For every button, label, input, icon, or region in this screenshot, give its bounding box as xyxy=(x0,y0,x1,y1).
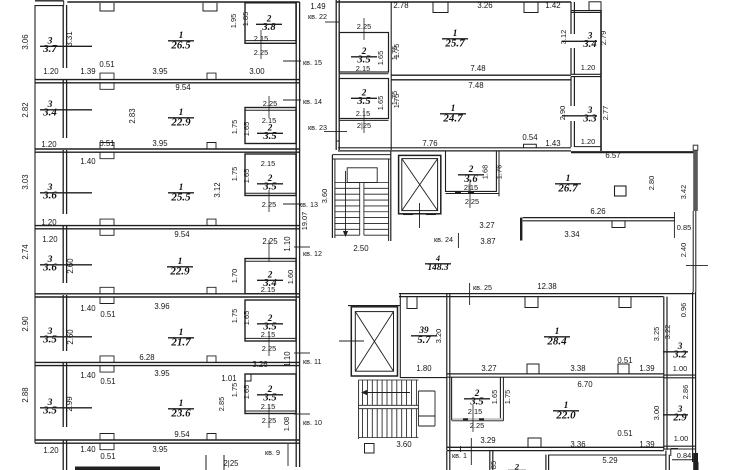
stairs lower treads xyxy=(362,380,364,405)
svg-text:3.34: 3.34 xyxy=(564,230,580,239)
stairs landing right xyxy=(417,391,419,426)
svg-text:7.76: 7.76 xyxy=(422,139,437,148)
svg-text:0.51: 0.51 xyxy=(617,429,632,438)
elevator shaft lower xyxy=(351,307,397,376)
svg-text:4: 4 xyxy=(435,254,440,263)
svg-text:3.26: 3.26 xyxy=(252,360,267,369)
svg-text:1.39: 1.39 xyxy=(639,440,654,449)
svg-text:1.68: 1.68 xyxy=(481,165,490,179)
partial bathroom right wall below xyxy=(545,455,547,470)
svg-text:3.95: 3.95 xyxy=(152,67,168,76)
svg-text:6.70: 6.70 xyxy=(577,380,593,389)
svg-text:2|15: 2|15 xyxy=(464,183,478,192)
svg-text:3.20: 3.20 xyxy=(434,329,443,343)
bottom partial walls xyxy=(205,455,207,470)
svg-text:3.87: 3.87 xyxy=(480,237,495,246)
svg-text:кв. 15: кв. 15 xyxy=(303,58,322,67)
svg-text:1.20: 1.20 xyxy=(43,67,59,76)
left wing outer west wall xyxy=(34,5,36,443)
kv.15 tick and label xyxy=(283,60,301,62)
right wing west wall xyxy=(335,0,337,150)
svg-text:3.6: 3.6 xyxy=(42,262,57,274)
svg-text:2.74: 2.74 xyxy=(21,244,30,260)
svg-text:2: 2 xyxy=(514,462,520,470)
svg-text:кв. 22: кв. 22 xyxy=(308,12,327,21)
svg-text:1.65: 1.65 xyxy=(376,96,385,110)
svg-text:1.39: 1.39 xyxy=(639,364,654,373)
column double wall xyxy=(663,297,665,450)
svg-text:3.38: 3.38 xyxy=(570,364,585,373)
svg-text:3.00: 3.00 xyxy=(249,67,265,76)
svg-text:1.75: 1.75 xyxy=(230,309,239,323)
svg-text:0.51: 0.51 xyxy=(99,139,114,148)
svg-text:кв. 12: кв. 12 xyxy=(303,249,322,258)
left wing east double wall xyxy=(295,2,297,467)
svg-text:3.60: 3.60 xyxy=(320,189,329,203)
svg-text:3.00: 3.00 xyxy=(652,406,661,420)
svg-text:0.85: 0.85 xyxy=(677,223,691,232)
svg-text:1.20: 1.20 xyxy=(41,140,57,149)
east wall thin below window xyxy=(692,238,694,292)
bathroom 2/3.5 row3 xyxy=(245,154,296,196)
stairwell walls upper xyxy=(331,155,333,238)
bathroom kv22 upper 2/3.5 xyxy=(339,33,388,73)
svg-text:кв. 1: кв. 1 xyxy=(452,451,467,460)
bathroom 2/3.8 row1 xyxy=(245,3,296,44)
svg-text:85: 85 xyxy=(489,461,498,469)
dim tick kv1 area xyxy=(460,446,462,452)
partial lower floor walls xyxy=(489,451,491,470)
svg-text:0.54: 0.54 xyxy=(522,133,538,142)
room 2/3.6 box xyxy=(446,151,497,192)
svg-text:2: 2 xyxy=(468,164,474,174)
svg-text:2|25: 2|25 xyxy=(223,459,239,468)
east wall bottom stub xyxy=(697,462,699,470)
svg-text:1.00: 1.00 xyxy=(673,364,687,373)
svg-text:2.85: 2.85 xyxy=(217,397,226,411)
svg-text:2.83: 2.83 xyxy=(128,108,137,123)
bathroom 2/3.5 bottom xyxy=(452,377,501,419)
svg-text:2.25: 2.25 xyxy=(263,99,277,108)
stair landing xyxy=(347,168,377,183)
row boundary walls xyxy=(35,79,300,81)
svg-text:2.80: 2.80 xyxy=(647,176,656,190)
svg-text:1.75: 1.75 xyxy=(230,120,239,134)
svg-text:кв. 14: кв. 14 xyxy=(303,97,322,106)
corridor wall top right thick xyxy=(571,151,695,153)
svg-text:39: 39 xyxy=(418,325,429,335)
svg-text:3.95: 3.95 xyxy=(152,139,168,148)
svg-text:5.7: 5.7 xyxy=(417,335,431,346)
svg-text:12.38: 12.38 xyxy=(537,282,557,291)
wall between 25.7 and 24.7 xyxy=(391,74,571,76)
svg-text:2.60: 2.60 xyxy=(66,329,75,345)
svg-text:1.65: 1.65 xyxy=(242,169,251,183)
bathroom 2/3.4 row4 xyxy=(245,259,296,294)
svg-text:кв. 25: кв. 25 xyxy=(473,283,492,292)
0.54 step xyxy=(524,144,537,148)
svg-text:1.00: 1.00 xyxy=(674,434,688,443)
svg-text:3.4: 3.4 xyxy=(42,107,57,119)
svg-text:3.31: 3.31 xyxy=(65,31,74,46)
svg-text:2.90: 2.90 xyxy=(21,316,30,332)
svg-text:2.82: 2.82 xyxy=(21,102,30,117)
svg-text:3.36: 3.36 xyxy=(570,440,585,449)
svg-text:1.65: 1.65 xyxy=(242,311,251,325)
svg-text:3.06: 3.06 xyxy=(21,34,30,49)
svg-text:2.15: 2.15 xyxy=(261,159,275,168)
door square symbol xyxy=(615,186,627,196)
svg-text:2.86: 2.86 xyxy=(681,385,690,399)
east wall of 5.7 double xyxy=(446,294,448,450)
svg-text:6.26: 6.26 xyxy=(590,207,605,216)
svg-text:1.65: 1.65 xyxy=(490,390,499,404)
stair down arrow xyxy=(345,171,347,234)
svg-text:2.50: 2.50 xyxy=(353,244,369,253)
svg-text:0.96: 0.96 xyxy=(679,303,688,317)
0.84 bracket xyxy=(670,449,672,457)
svg-text:2.25: 2.25 xyxy=(262,237,278,246)
svg-text:1.65: 1.65 xyxy=(242,385,251,399)
svg-text:0.51: 0.51 xyxy=(100,377,115,386)
kv.11 tick and label xyxy=(294,352,310,354)
room 39/5.7 west wall xyxy=(399,294,401,378)
svg-text:9.54: 9.54 xyxy=(174,230,190,239)
left wing corridor double wall xyxy=(62,5,64,68)
svg-text:1.65: 1.65 xyxy=(376,51,385,65)
svg-text:1.76: 1.76 xyxy=(495,165,504,179)
east window double line xyxy=(692,211,694,238)
east outer wall lower xyxy=(692,292,694,462)
door notch top wall xyxy=(100,3,114,11)
svg-text:3.03: 3.03 xyxy=(21,174,30,189)
svg-text:1.70: 1.70 xyxy=(230,269,239,283)
svg-text:1.20: 1.20 xyxy=(41,218,57,227)
stair treads upper xyxy=(335,182,360,184)
svg-text:3.27: 3.27 xyxy=(481,364,496,373)
wall below 2.9 xyxy=(664,445,696,447)
stairs lower boundary xyxy=(358,380,360,439)
next row top wall right part xyxy=(549,454,666,456)
right column bottom wall xyxy=(574,146,601,148)
svg-text:кв. 23: кв. 23 xyxy=(308,123,327,132)
black corner post xyxy=(693,453,698,470)
bathroom kv22 lower 2/3.5 xyxy=(339,79,388,119)
svg-text:3.42: 3.42 xyxy=(679,185,688,199)
svg-text:19.07: 19.07 xyxy=(300,212,309,231)
svg-text:2.90: 2.90 xyxy=(558,106,567,120)
svg-text:1.39: 1.39 xyxy=(80,67,95,76)
svg-text:1.95: 1.95 xyxy=(229,14,238,28)
svg-text:2.77: 2.77 xyxy=(601,106,610,120)
corridor north wall (y148-151) xyxy=(338,147,571,149)
svg-text:1.42: 1.42 xyxy=(545,1,560,10)
top wall door notches xyxy=(433,3,448,13)
svg-text:7.48: 7.48 xyxy=(468,81,483,90)
svg-text:кв. 13: кв. 13 xyxy=(299,200,318,209)
svg-text:1.75: 1.75 xyxy=(503,390,512,404)
svg-text:1.40: 1.40 xyxy=(80,445,96,454)
stairs arrow left xyxy=(364,392,410,394)
svg-text:3.12: 3.12 xyxy=(559,30,568,44)
room 5.7 south wall xyxy=(400,377,447,379)
svg-text:0.84: 0.84 xyxy=(677,451,691,460)
top notch box xyxy=(589,2,601,11)
svg-text:3.12: 3.12 xyxy=(213,182,222,197)
svg-text:1.75: 1.75 xyxy=(392,44,401,58)
elevator door ticks xyxy=(403,214,413,216)
svg-text:6.57: 6.57 xyxy=(605,151,620,160)
svg-text:1.75: 1.75 xyxy=(230,167,239,181)
svg-text:2.15: 2.15 xyxy=(468,407,482,416)
tick 2.40 xyxy=(686,264,708,266)
svg-text:1.20: 1.20 xyxy=(581,137,595,146)
svg-text:2.15: 2.15 xyxy=(261,402,275,411)
svg-text:2.15: 2.15 xyxy=(261,285,275,294)
svg-text:3.96: 3.96 xyxy=(154,302,169,311)
svg-text:3.26: 3.26 xyxy=(477,1,492,10)
svg-text:3.5: 3.5 xyxy=(42,334,57,346)
bottom black bar xyxy=(75,467,160,470)
svg-text:2.99: 2.99 xyxy=(65,396,74,411)
svg-text:1.20: 1.20 xyxy=(43,446,59,455)
bathroom 2/3.5 row2 xyxy=(245,108,296,144)
svg-text:1.60: 1.60 xyxy=(286,270,295,284)
svg-text:2.15: 2.15 xyxy=(261,330,275,339)
svg-text:1.49: 1.49 xyxy=(310,2,325,11)
bathroom 2/3.5 row5 xyxy=(245,300,296,341)
svg-text:3.5: 3.5 xyxy=(42,405,57,417)
right column top wall xyxy=(571,10,601,12)
svg-text:7.48: 7.48 xyxy=(470,64,485,73)
north wall door notches down xyxy=(525,297,538,308)
bottom wall of 22.0 xyxy=(447,446,664,448)
svg-text:9.54: 9.54 xyxy=(174,430,190,439)
left wing top wall xyxy=(35,0,64,2)
svg-text:0.51: 0.51 xyxy=(100,310,115,319)
svg-text:3.22: 3.22 xyxy=(663,325,672,339)
svg-text:1.85: 1.85 xyxy=(241,12,250,26)
svg-text:1.40: 1.40 xyxy=(80,371,96,380)
column wall continues below xyxy=(665,451,667,470)
svg-text:3.95: 3.95 xyxy=(154,369,170,378)
svg-text:2.60: 2.60 xyxy=(66,258,75,274)
svg-text:3.7: 3.7 xyxy=(42,43,57,55)
door notches row walls xyxy=(100,73,114,80)
svg-text:2.15: 2.15 xyxy=(356,64,370,73)
svg-text:0.51: 0.51 xyxy=(99,60,114,69)
svg-text:3.25: 3.25 xyxy=(652,327,661,341)
small square symbol xyxy=(365,444,375,454)
elevator tick left xyxy=(339,340,364,342)
window recess line xyxy=(673,212,675,238)
bathroom 2/3.5 row6 xyxy=(245,374,296,414)
notch in south wall xyxy=(612,221,625,228)
28.4 south wall xyxy=(447,373,664,375)
svg-text:3.29: 3.29 xyxy=(480,436,495,445)
svg-text:3.60: 3.60 xyxy=(396,440,412,449)
niche in wall xyxy=(407,297,417,309)
svg-text:кв. 11: кв. 11 xyxy=(303,357,321,366)
wall east of bathrooms xyxy=(390,2,392,150)
kv.13 tick and label xyxy=(283,203,301,205)
svg-text:кв. 24: кв. 24 xyxy=(434,235,453,244)
partial walls below kv1 xyxy=(446,451,448,470)
svg-text:1.40: 1.40 xyxy=(80,304,96,313)
right column east wall xyxy=(600,10,602,151)
svg-text:3.95: 3.95 xyxy=(152,445,168,454)
svg-text:2.78: 2.78 xyxy=(393,1,408,10)
svg-text:1.80: 1.80 xyxy=(416,364,432,373)
elevator shaft upper xyxy=(399,155,441,213)
svg-text:3.6: 3.6 xyxy=(42,190,57,202)
28.4 south wall notches xyxy=(527,364,539,374)
svg-text:2.15: 2.15 xyxy=(356,109,370,118)
svg-text:кв. 10: кв. 10 xyxy=(303,418,322,427)
wall between 3.2 and 2.9 xyxy=(664,374,696,376)
svg-text:1.10: 1.10 xyxy=(283,236,292,252)
door hashes below 3.6 xyxy=(455,191,461,193)
stair central stringer xyxy=(359,183,361,236)
lower section north wall xyxy=(399,293,695,295)
svg-text:1.65: 1.65 xyxy=(242,122,251,136)
svg-text:1.01: 1.01 xyxy=(221,374,236,383)
svg-text:1.43: 1.43 xyxy=(545,139,560,148)
hall south wall above elevator xyxy=(348,305,400,307)
svg-text:2|25: 2|25 xyxy=(465,197,479,206)
svg-text:кв. 9: кв. 9 xyxy=(265,448,280,457)
svg-text:1.10: 1.10 xyxy=(283,351,292,367)
kv.12 tick and label xyxy=(294,246,310,248)
svg-text:2.40: 2.40 xyxy=(679,243,688,257)
east outer wall thick gray xyxy=(693,147,698,211)
svg-text:5.29: 5.29 xyxy=(602,456,617,465)
svg-text:0.51: 0.51 xyxy=(617,356,632,365)
right wing top wall xyxy=(336,1,571,3)
svg-text:1.75: 1.75 xyxy=(392,94,401,108)
stub wall below 26.7 south wall xyxy=(520,218,522,241)
svg-text:6.28: 6.28 xyxy=(139,353,154,362)
kv.14 tick and label xyxy=(283,99,301,101)
svg-text:1.20: 1.20 xyxy=(42,235,58,244)
room 26.7 south wall xyxy=(523,217,675,219)
right column west double wall xyxy=(570,2,572,34)
svg-text:2.25: 2.25 xyxy=(470,421,484,430)
svg-text:9.54: 9.54 xyxy=(175,83,191,92)
svg-text:1.75: 1.75 xyxy=(230,383,239,397)
wall between 3.4 and 3.3 xyxy=(571,73,601,75)
svg-text:2.88: 2.88 xyxy=(21,387,30,402)
svg-text:1.08: 1.08 xyxy=(282,417,291,431)
svg-text:1.20: 1.20 xyxy=(581,63,595,72)
bottom wall notch xyxy=(528,438,541,447)
kv.10 tick and label xyxy=(294,413,310,415)
svg-text:2.79: 2.79 xyxy=(599,31,608,45)
svg-text:3.27: 3.27 xyxy=(479,221,494,230)
svg-text:1.40: 1.40 xyxy=(80,157,96,166)
svg-text:0.51: 0.51 xyxy=(100,452,115,461)
